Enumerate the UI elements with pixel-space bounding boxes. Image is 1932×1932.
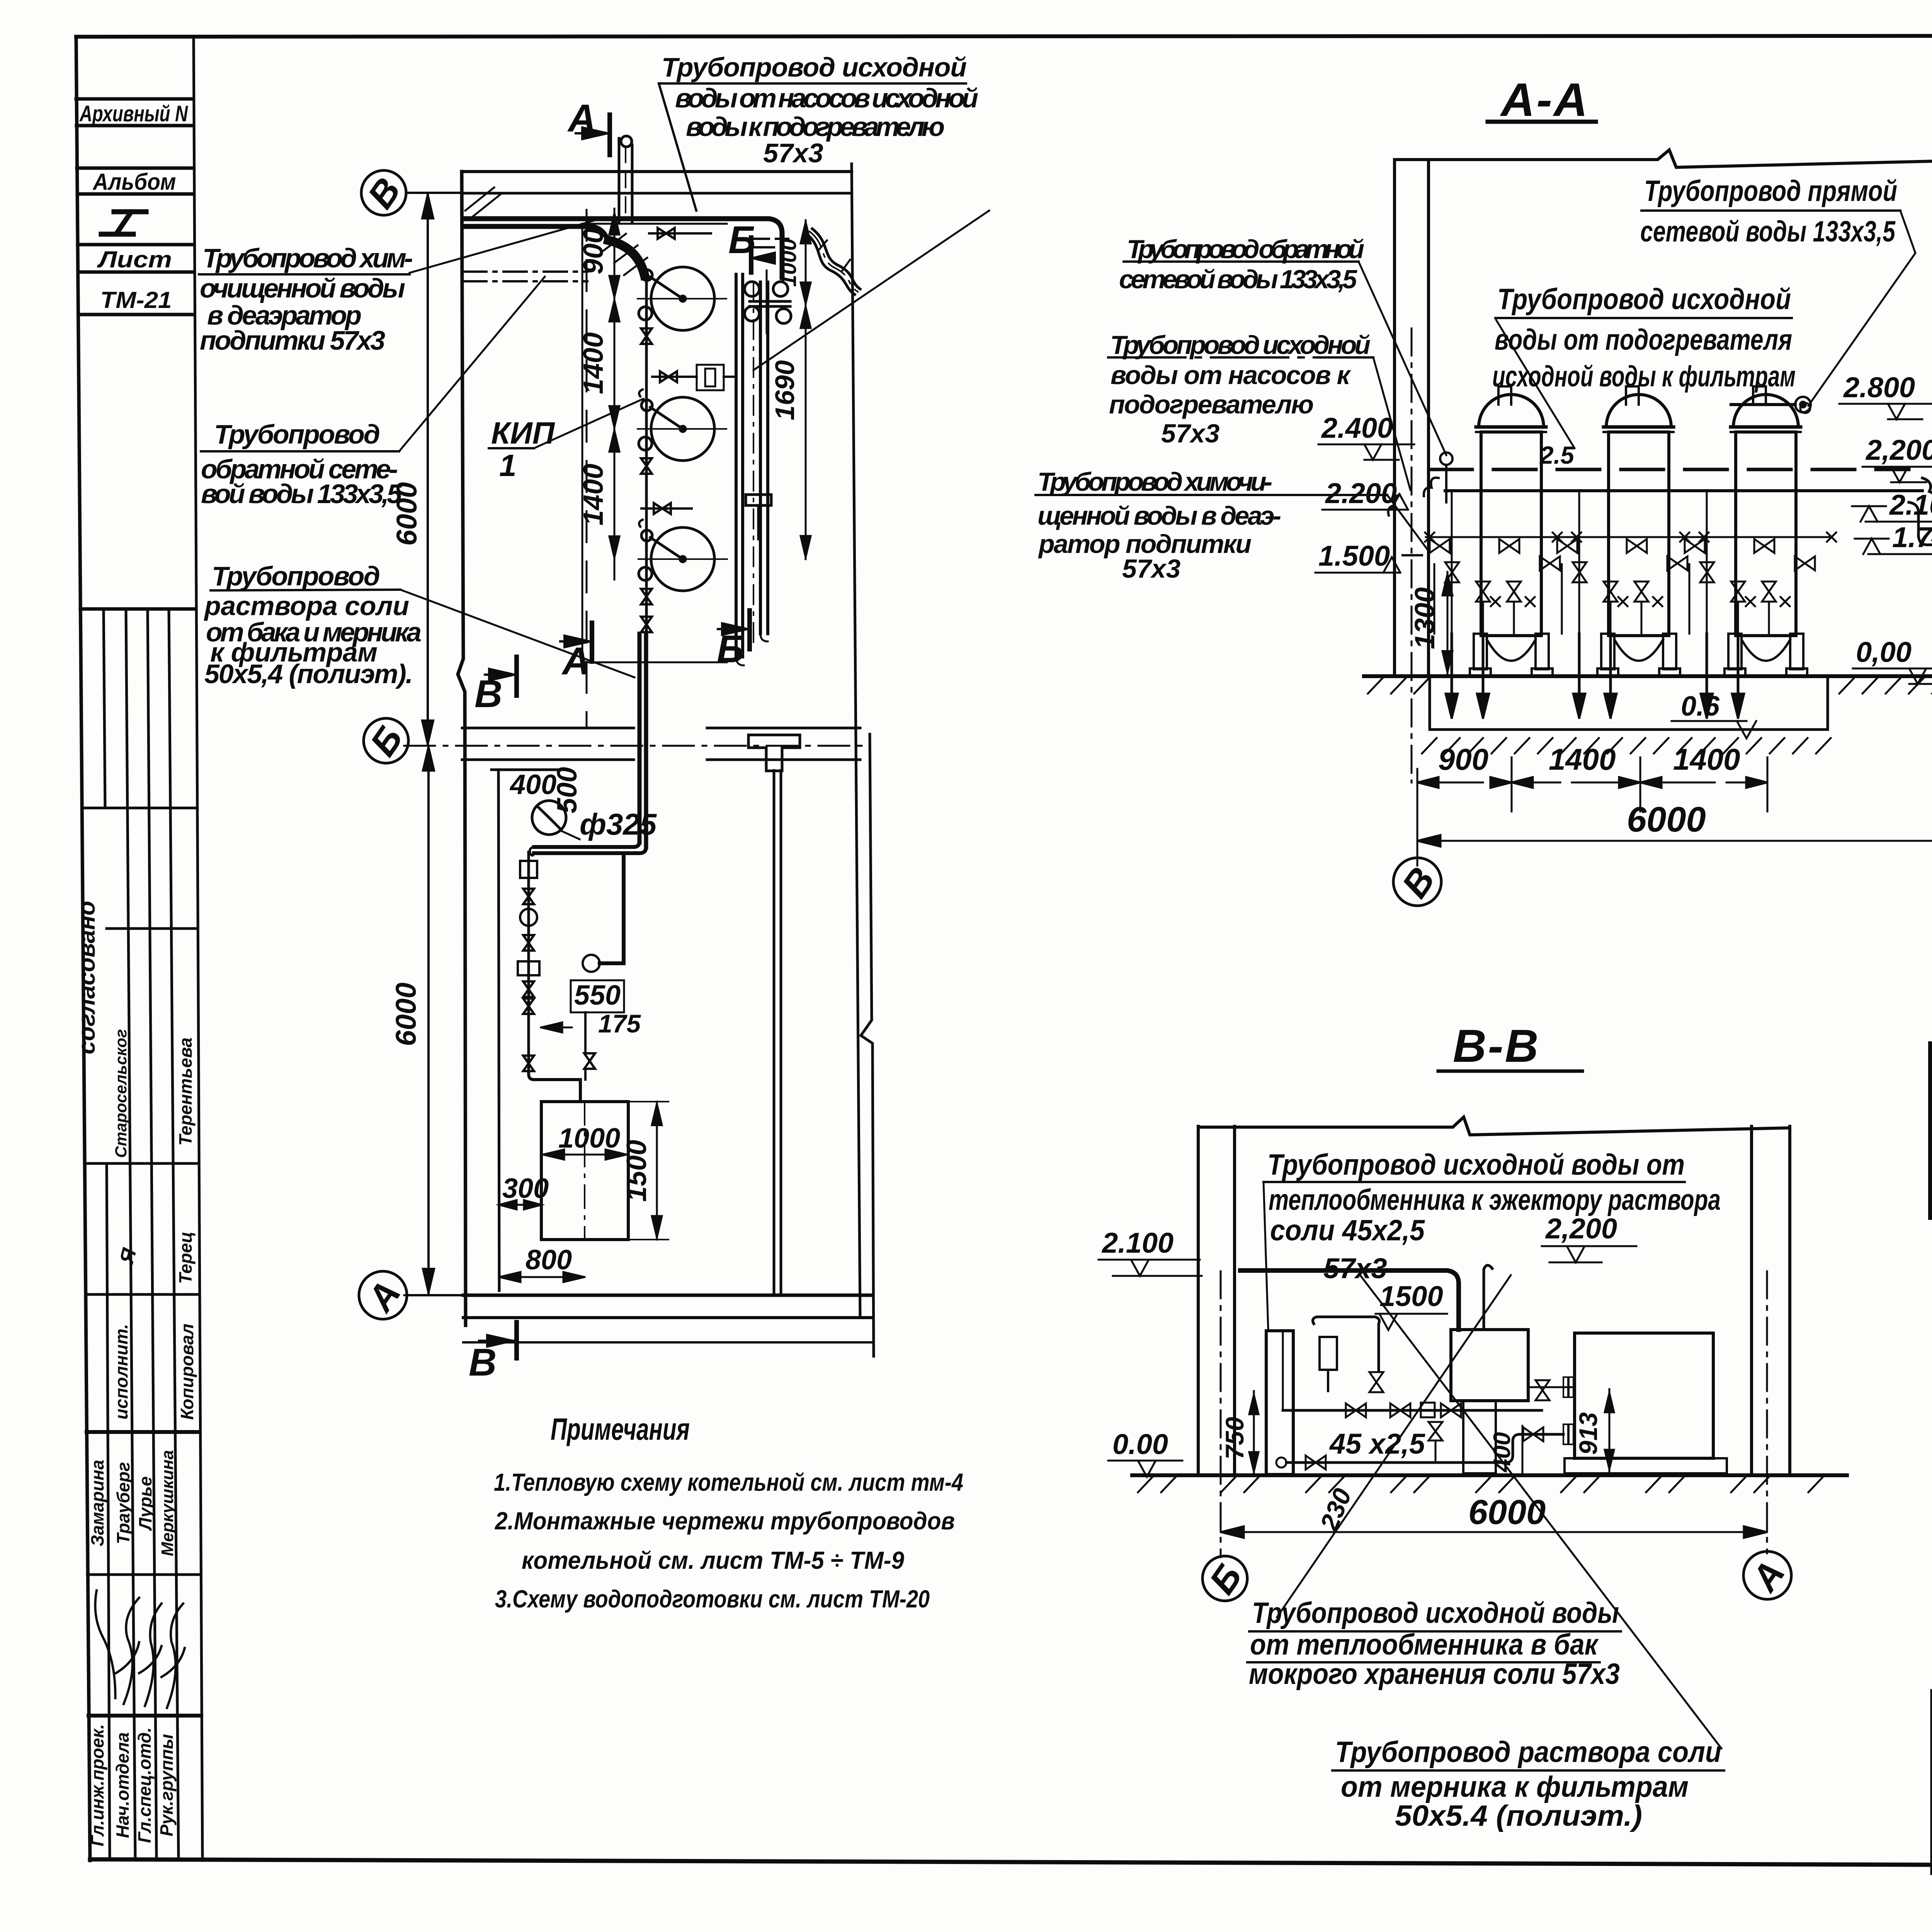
AA dim 6000: [1417, 782, 1932, 860]
svg-text:Копировал: Копировал: [177, 1324, 197, 1420]
svg-text:0.00: 0.00: [1112, 1428, 1168, 1460]
svg-text:Гл.инж.проек.: Гл.инж.проек.: [87, 1724, 107, 1846]
svg-text:Терентьева: Терентьева: [175, 1037, 196, 1146]
grid circle B: [361, 170, 406, 215]
svg-text:1.700: 1.700: [1892, 521, 1932, 553]
svg-text:А-А: А-А: [1500, 73, 1589, 126]
grid circle Б2: [364, 718, 408, 763]
AA floor: [1364, 674, 1932, 678]
wall right line2: [861, 734, 874, 1356]
AA valve cluster vessel1: [1425, 491, 1581, 719]
leader return label: [399, 277, 545, 451]
svg-text:57х3: 57х3: [1161, 419, 1219, 448]
leader chem label: [410, 220, 595, 273]
section marker A top: [567, 97, 610, 155]
sheet frame bottom: [90, 1859, 1932, 1867]
strip right edge: [194, 36, 202, 1861]
svg-text:2.100: 2.100: [1889, 489, 1932, 521]
AA label chem to deaerator left: [1037, 467, 1281, 583]
rotated signature scribble 4: [162, 1604, 185, 1708]
KIP label: [489, 399, 643, 483]
supply pipe thick top: [463, 219, 782, 277]
underline salt label: [211, 590, 400, 590]
VV left wall axis: [1220, 1271, 1222, 1557]
wall left inner lower: [498, 770, 499, 1291]
AA ceiling: [1395, 150, 1932, 167]
wall left: [458, 172, 466, 1325]
salt storage tank: [541, 1102, 628, 1240]
svg-text:вой воды 133х3,5: вой воды 133х3,5: [201, 479, 402, 509]
AA elev 1.500 left: [1315, 540, 1400, 573]
wall top line 1: [462, 170, 852, 173]
svg-text:2.Монтажные чертежи трубопро: 2.Монтажные чертежи трубопроводов: [495, 1507, 955, 1535]
strip column v3: [148, 609, 156, 1859]
AA filter vessel 3: [1725, 386, 1807, 676]
pump circle C: [583, 854, 624, 972]
section marker V bottom: [469, 1322, 517, 1384]
dim 1000 1690 vertical: [801, 220, 811, 559]
wall bottom line2: [463, 1316, 871, 1319]
svg-text:Архивный N: Архивный N: [79, 101, 188, 126]
svg-text:Меркушкина: Меркушкина: [158, 1450, 177, 1556]
svg-text:воды к подогревателю: воды к подогревателю: [686, 112, 945, 142]
svg-text:900: 900: [1438, 742, 1488, 776]
AA solid pipe line: [1445, 489, 1922, 492]
svg-text:1400: 1400: [1673, 742, 1740, 776]
VV circle B: [1202, 1556, 1250, 1602]
svg-text:Трубопровод: Трубопровод: [214, 419, 380, 449]
AA circle V: [1393, 858, 1443, 906]
AA elev 0.00 right: [1853, 636, 1932, 684]
svg-text:Трубопровод химочи-: Трубопровод химочи-: [1037, 467, 1272, 497]
label f325: [561, 807, 657, 841]
SECTION V-V: [1099, 1020, 1847, 1832]
tank dim 1500: [621, 1102, 668, 1240]
svg-text:1300: 1300: [1410, 587, 1440, 649]
VV circle A: [1743, 1551, 1793, 1599]
svg-text:Трубопровод: Трубопровод: [212, 561, 380, 591]
VV ceiling: [1198, 1117, 1790, 1135]
VV dim 750: [1220, 1391, 1259, 1475]
svg-text:ф325: ф325: [580, 807, 657, 841]
VV leader crossing 2: [1277, 1275, 1511, 1617]
riser pipe through top wall: [619, 136, 632, 221]
AA pipe drop right: [1909, 502, 1932, 548]
svg-text:Трубопровод исходной: Трубопровод исходной: [1110, 330, 1371, 360]
svg-text:сетевой воды 133х3,5: сетевой воды 133х3,5: [1640, 215, 1896, 248]
svg-text:ТМ-21: ТМ-21: [100, 287, 172, 313]
svg-text:Лурье: Лурье: [135, 1476, 155, 1531]
rotated signature scribble 3: [139, 1604, 162, 1706]
section marker B top: [728, 218, 788, 272]
label chem water: [200, 243, 413, 355]
section marker A bottom: [560, 623, 592, 683]
AA pit: [1422, 676, 1831, 753]
svg-text:1400: 1400: [578, 464, 609, 526]
svg-text:Альбом: Альбом: [92, 169, 176, 195]
leader top label: [659, 83, 696, 211]
svg-text:2.400: 2.400: [1321, 412, 1393, 444]
AA label direct water: [1640, 175, 1897, 248]
svg-text:1500: 1500: [1379, 1280, 1443, 1312]
wall middle band line1: [462, 727, 634, 730]
svg-text:1: 1: [499, 448, 517, 483]
svg-text:400: 400: [509, 769, 556, 800]
svg-text:6000: 6000: [1468, 1493, 1546, 1532]
sheet frame left: [76, 37, 90, 1861]
valve column fittings: [639, 328, 652, 632]
VV dim 400: [1489, 1426, 1522, 1475]
AA label return left: [1119, 235, 1364, 294]
svg-text:соли 45х2,5: соли 45х2,5: [1270, 1214, 1425, 1247]
rotated signature scribble 1: [82, 1590, 130, 1698]
svg-text:от теплообменника в бак: от теплообменника в бак: [1250, 1628, 1599, 1661]
svg-text:6000: 6000: [1627, 800, 1706, 839]
snake pipe top right: [807, 229, 860, 294]
pipe elbow gooseneck: [609, 240, 645, 275]
svg-text:500: 500: [552, 767, 583, 813]
rotated signature scribble 2: [116, 1598, 139, 1704]
salt tank circle f325: [532, 801, 566, 835]
svg-text:подогревателю: подогревателю: [1109, 390, 1314, 419]
AA dim chain 900 1400 1400: [1417, 742, 1767, 866]
table outer box: [1930, 1044, 1932, 1218]
filter vessel 2: [638, 397, 726, 461]
tank dim 1000: [543, 1123, 627, 1160]
svg-text:котельной см. лист ТМ-5 ÷ ТМ: котельной см. лист ТМ-5 ÷ ТМ-9: [522, 1546, 904, 1574]
VV top label to ejector: [1267, 1148, 1721, 1247]
svg-text:1.Тепловую схему котельной с: 1.Тепловую схему котельной см. лист тм-4: [494, 1468, 963, 1496]
strip row line: [80, 607, 195, 611]
AA right pipe hook: [1922, 478, 1932, 516]
svg-text:750: 750: [1220, 1417, 1249, 1459]
AA filter vessel 2: [1597, 386, 1680, 676]
label return water: [201, 419, 402, 509]
wall middle band line2: [462, 759, 634, 761]
grid circle B line: [406, 192, 462, 194]
svg-text:Трубопровод обратной: Трубопровод обратной: [1127, 235, 1364, 264]
AA elev 2.200 left: [1322, 477, 1408, 510]
svg-text:В-В: В-В: [1453, 1020, 1540, 1072]
AA label source to filters: [1492, 283, 1796, 393]
tank dim 300: [499, 1173, 549, 1209]
AA left inlet circle: [1424, 452, 1452, 502]
section marker V mid: [474, 657, 517, 716]
svg-text:1500: 1500: [621, 1140, 652, 1202]
filter vessel 1: [638, 267, 726, 330]
axis dash-dot B row: [404, 745, 869, 747]
VV interior piping: [1276, 1317, 1575, 1469]
VV elev 2.200: [1542, 1213, 1636, 1262]
svg-text:Рук.группы: Рук.группы: [156, 1734, 177, 1837]
wall right line1: [852, 164, 860, 1318]
svg-text:57х3: 57х3: [763, 138, 823, 168]
VV vent stub: [1484, 1265, 1492, 1330]
existing pipes dash-dot pair: [463, 270, 587, 273]
VV dim 1500: [1376, 1280, 1447, 1330]
svg-text:45 х2,5: 45 х2,5: [1329, 1428, 1426, 1460]
AA col axis dashdot left: [1411, 328, 1413, 782]
AA elev 2.400 left: [1318, 412, 1414, 460]
axis dash-dot A row: [404, 1294, 463, 1296]
AA elev 1.700 right: [1855, 521, 1932, 554]
svg-text:913: 913: [1574, 1412, 1602, 1455]
leader to right label: [753, 211, 989, 370]
VV floor: [1132, 1473, 1847, 1477]
svg-text:800: 800: [526, 1245, 572, 1276]
svg-text:1000: 1000: [776, 239, 801, 287]
AA chem pipe left: [1388, 495, 1422, 555]
svg-text:теплообменника к эжектору раст: теплообменника к эжектору раствора: [1269, 1184, 1721, 1216]
svg-text:щенной воды в деаэ-: щенной воды в деаэ-: [1037, 501, 1281, 531]
AA valve cluster vessel2: [1553, 491, 1709, 719]
SPEC TABLE KIPiA: [1930, 1044, 1932, 1219]
flanged fitting cluster: [745, 270, 791, 333]
AA valve cluster vessel3: [1680, 491, 1836, 719]
equipment bay outline: [582, 224, 727, 662]
dim line 6000 lower: [423, 746, 434, 1294]
svg-text:Нач.отдела: Нач.отдела: [112, 1732, 133, 1838]
AA elev 2.800: [1839, 371, 1932, 419]
svg-text:сетевой воды 133х3,5: сетевой воды 133х3,5: [1119, 265, 1357, 294]
svg-text:исполнит.: исполнит.: [111, 1324, 131, 1419]
svg-text:50х5,4 (полиэт).: 50х5,4 (полиэт).: [204, 659, 413, 689]
supply pipe thick 2: [463, 226, 607, 240]
descend pipes to lower room: [530, 634, 646, 855]
svg-text:воды от насосов исходной: воды от насосов исходной: [675, 83, 978, 113]
VV elev 0.00: [1108, 1428, 1182, 1477]
branch valve top: [649, 228, 711, 239]
svg-text:175: 175: [598, 1009, 641, 1038]
VV dim 6000: [1221, 1493, 1767, 1538]
VV right wall: [1750, 1126, 1753, 1475]
CALLOUT LABELS AROUND PLAN: [200, 52, 978, 689]
wall top line 2: [462, 192, 852, 195]
tank dim 800: [499, 1245, 585, 1282]
label I roman: [101, 212, 146, 234]
svg-text:Трубопровод исходной: Трубопровод исходной: [662, 52, 967, 82]
strip column v2: [126, 609, 135, 1859]
svg-text:Замарина: Замарина: [87, 1460, 107, 1546]
svg-text:1400: 1400: [1549, 742, 1616, 776]
box 550: [541, 980, 641, 1080]
VV left wall: [1197, 1126, 1200, 1475]
svg-text:50х5.4 (полиэт.): 50х5.4 (полиэт.): [1395, 1799, 1642, 1832]
leader salt label: [400, 590, 634, 677]
strip column v4: [169, 609, 179, 1859]
VV equipment left box: [1266, 1331, 1293, 1475]
svg-text:КИП: КИП: [491, 416, 555, 450]
svg-text:550: 550: [574, 980, 621, 1011]
AA label pumps to heater left: [1109, 330, 1371, 448]
VV bottom label salt solution: [1335, 1736, 1721, 1832]
right pipes vertical pair: [736, 274, 768, 665]
dim chain 900-1400-1400: [609, 209, 619, 580]
dim line 6000 upper: [422, 195, 433, 744]
svg-text:2.200: 2.200: [1325, 477, 1397, 509]
VV right wall axis: [1766, 1271, 1768, 1553]
AA left wall: [1393, 160, 1396, 676]
strip box line: [76, 97, 193, 101]
PLAN VIEW: [359, 97, 989, 1384]
svg-text:1.500: 1.500: [1318, 540, 1390, 572]
svg-text:1000: 1000: [558, 1123, 620, 1154]
underline chem label: [199, 273, 410, 276]
svg-text:очищенной воды: очищенной воды: [200, 273, 405, 303]
svg-text:воды от насосов к: воды от насосов к: [1111, 361, 1352, 390]
lower room door partition: [492, 769, 566, 771]
T-column top right: [748, 735, 800, 771]
svg-text:2.5: 2.5: [1539, 441, 1575, 469]
door swing marks: [465, 187, 502, 216]
svg-text:Старосельског: Старосельског: [112, 1029, 130, 1158]
AA right top circle fitting: [1731, 397, 1811, 412]
VV leader crossing 1: [1360, 1275, 1721, 1748]
svg-text:Трауберг: Трауберг: [113, 1462, 133, 1544]
svg-text:0,00: 0,00: [1856, 636, 1912, 668]
svg-text:воды от подогревателя: воды от подогревателя: [1495, 323, 1792, 356]
strip column v1: [104, 609, 105, 808]
svg-text:1400: 1400: [578, 332, 609, 394]
svg-text:подпитки 57х3: подпитки 57х3: [200, 325, 385, 355]
VV right box: [1565, 1333, 1727, 1473]
VV dim 913: [1574, 1389, 1614, 1472]
section marker B bottom: [717, 611, 750, 671]
svg-text:2,200: 2,200: [1545, 1213, 1617, 1245]
svg-text:Трубопровод раствора соли: Трубопровод раствора соли: [1335, 1736, 1721, 1769]
VV fitting rect: [1320, 1337, 1337, 1370]
VV mid box: [1451, 1330, 1528, 1473]
svg-text:300: 300: [502, 1173, 549, 1204]
corridor wall line b: [780, 770, 782, 1295]
svg-text:согласовано: согласовано: [73, 901, 100, 1054]
AA dashed pipe line: [1430, 468, 1909, 471]
table header underline: [1930, 1103, 1932, 1107]
AA floor hatching: [1368, 678, 1932, 694]
VV elev 2.100: [1099, 1227, 1202, 1276]
svg-text:2.100: 2.100: [1101, 1227, 1173, 1259]
svg-text:2.800: 2.800: [1843, 371, 1915, 403]
svg-text:57х3: 57х3: [1122, 554, 1180, 583]
branch valve mid: [652, 365, 733, 390]
svg-text:раствора соли: раствора соли: [204, 591, 409, 621]
svg-text:от мерника к фильтрам: от мерника к фильтрам: [1341, 1770, 1689, 1803]
svg-text:900: 900: [578, 228, 609, 274]
underline top label: [659, 82, 966, 85]
label pipe to heater top: [662, 52, 978, 168]
table header row line: [1930, 1153, 1932, 1157]
svg-text:Лист: Лист: [97, 247, 172, 272]
grid circle A line: [407, 1294, 463, 1296]
VV main pipe: [1240, 1270, 1459, 1330]
valve column: [645, 274, 648, 630]
LEFT TITLE STRIP: [76, 36, 202, 1861]
svg-text:Примечания: Примечания: [551, 1412, 690, 1446]
pipe supports right: [746, 495, 771, 539]
svg-text:Терец: Терец: [175, 1231, 196, 1284]
VV bottom label to tank: [1249, 1597, 1620, 1690]
branch valve low: [641, 503, 692, 514]
NOTES: [494, 1412, 963, 1613]
svg-text:Трубопровод исходной воды: Трубопровод исходной воды: [1252, 1597, 1619, 1629]
svg-text:Трубопровод хим-: Трубопровод хим-: [202, 243, 413, 273]
svg-text:6000: 6000: [390, 983, 422, 1046]
valve chain lower: [518, 852, 580, 1102]
axis dashed vertical mid: [586, 210, 588, 728]
svg-text:Трубопровод исходной: Трубопровод исходной: [1497, 283, 1791, 316]
axis dash-dot lower: [529, 1294, 858, 1296]
underline return label: [201, 450, 399, 452]
grid circle A: [359, 1271, 407, 1319]
sheet frame top: [76, 36, 1932, 37]
filter vessel 3: [638, 527, 727, 591]
svg-text:В: В: [469, 1341, 497, 1384]
svg-text:Гл.спец.отд.: Гл.спец.отд.: [134, 1727, 155, 1843]
SECTION A-A: [1036, 73, 1932, 906]
wall bottom line1: [463, 1294, 871, 1297]
svg-text:400: 400: [1489, 1432, 1515, 1473]
svg-text:1690: 1690: [770, 360, 800, 420]
AA elev 2.200 right: [1862, 434, 1932, 482]
svg-text:2,200: 2,200: [1865, 434, 1932, 466]
AA filter vessel 1: [1470, 386, 1553, 676]
svg-text:Трубопровод исходной воды о: Трубопровод исходной воды от: [1267, 1148, 1685, 1181]
corridor wall line a: [773, 770, 776, 1295]
AA pit mark 0.6: [1672, 691, 1756, 738]
svg-text:3.Схему водоподготовки см. ли: 3.Схему водоподготовки см. лист ТМ-20: [495, 1585, 930, 1613]
svg-text:Трубопровод прямой: Трубопровод прямой: [1644, 175, 1897, 207]
label salt solution: [204, 561, 422, 689]
AA dim 1300: [1410, 572, 1452, 674]
wall bottom line3: [463, 1341, 871, 1344]
AA elev 2.100 right: [1852, 489, 1932, 522]
